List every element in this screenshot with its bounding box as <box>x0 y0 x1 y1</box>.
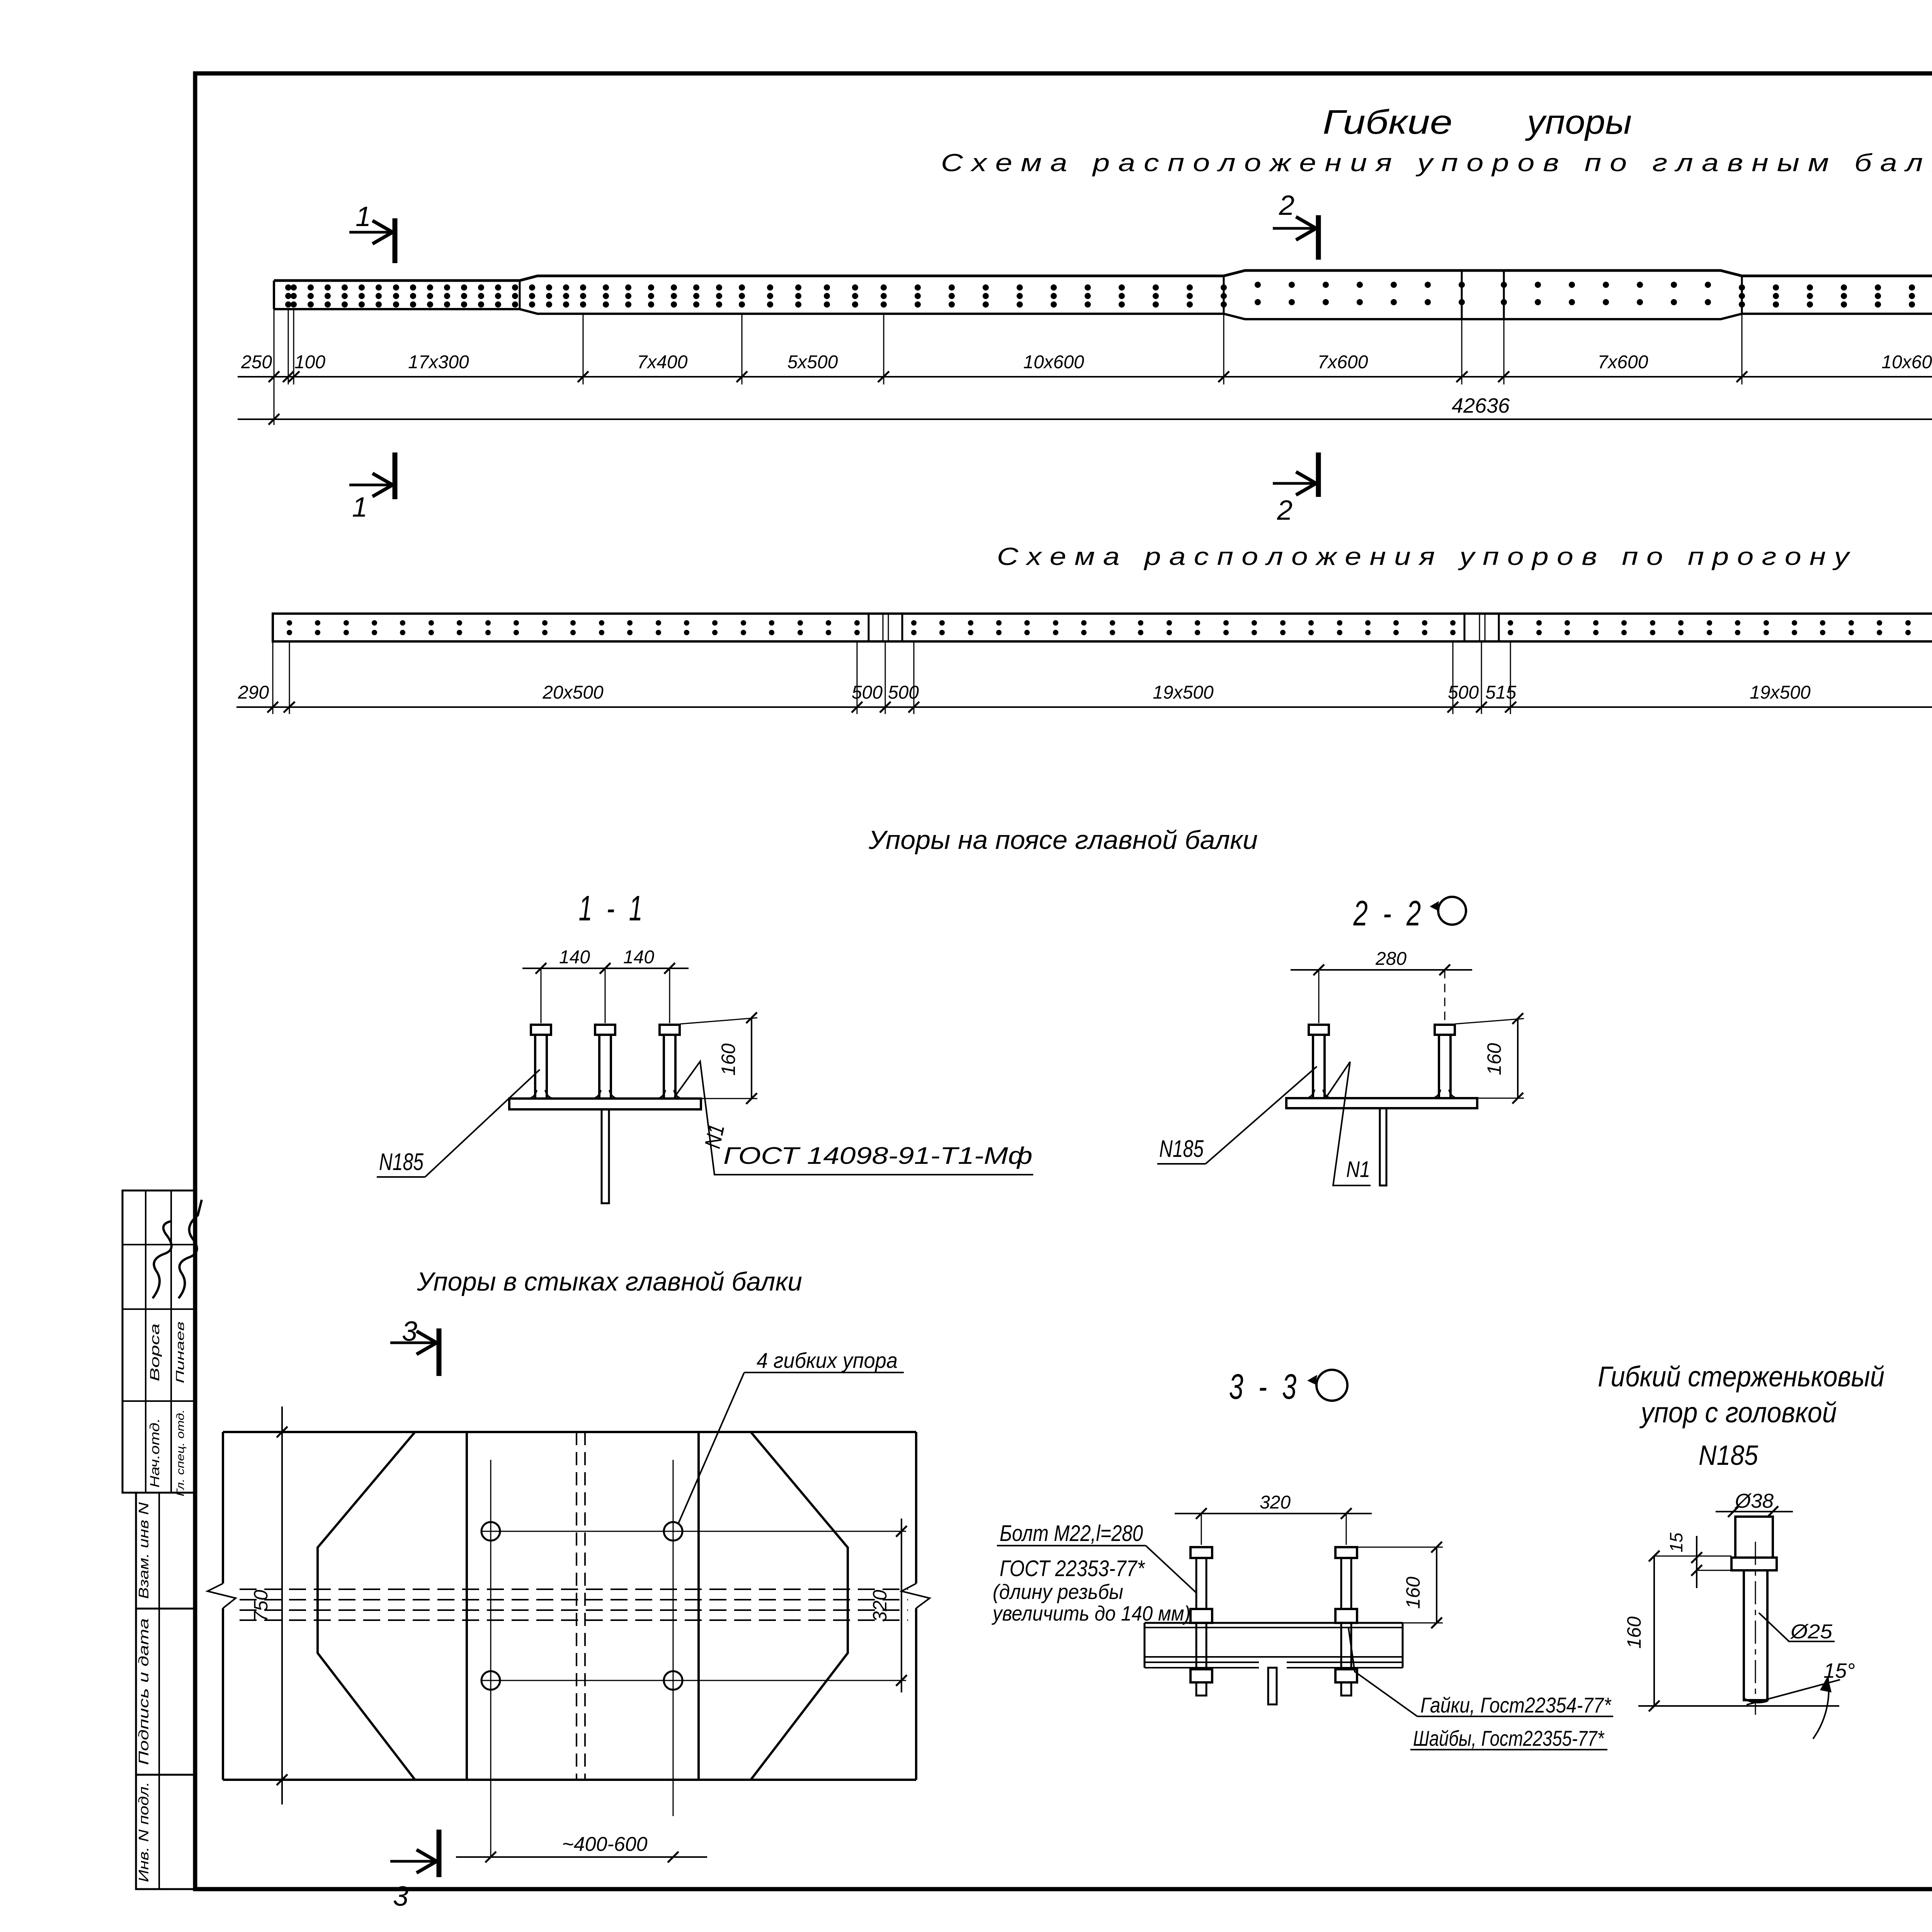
leader N185 (section 1-1) <box>377 1070 540 1177</box>
left stamp: Подпись и дата cell <box>136 1609 195 1775</box>
svg-text:19x500: 19x500 <box>1153 682 1214 703</box>
svg-text:С х е м а р а с п о л о ж е: С х е м а р а с п о л о ж е н и я у п о … <box>997 543 1851 570</box>
svg-text:(длину резьбы: (длину резьбы <box>993 1580 1123 1604</box>
dim 160 (section 3-3) <box>1357 1542 1443 1628</box>
svg-text:ГОСТ 14098-91-Т1-Мф: ГОСТ 14098-91-Т1-Мф <box>723 1143 1032 1169</box>
svg-text:2: 2 <box>1277 495 1293 526</box>
dim 160 (section 2-2) <box>1455 1013 1524 1104</box>
plan: bolt circles (4 flexible stops) <box>481 1460 906 1857</box>
dim 750 (plan) <box>250 1406 287 1804</box>
svg-text:500: 500 <box>852 682 883 703</box>
svg-text:Взам. инв N: Взам. инв N <box>136 1502 151 1599</box>
web (section 2-2) <box>1380 1108 1386 1185</box>
section marker 1 (top) <box>349 201 395 263</box>
dim 320 (plan) <box>869 1519 907 1692</box>
svg-text:Ø38: Ø38 <box>1734 1490 1774 1512</box>
left stamp: Взам. инв N cell <box>136 1493 195 1609</box>
svg-text:3 - 3: 3 - 3 <box>1229 1367 1301 1406</box>
beam: main girder profile (scheme 1) <box>274 270 1932 319</box>
plan: hidden flange edges (dashed) <box>240 1589 908 1620</box>
total dimension 42636 <box>238 309 1932 425</box>
left stamp: Инв. N подл. cell <box>136 1775 195 1889</box>
leader N1 / ГОСТ 14098-91-Т1-Мф (section 1-1) <box>674 1061 1033 1175</box>
svg-text:Упоры в стыках главной балки: Упоры в стыках главной балки <box>417 1267 802 1296</box>
beam 1 mid-span splice joint <box>1462 270 1504 319</box>
svg-text:~400-600: ~400-600 <box>562 1833 647 1855</box>
svg-text:500: 500 <box>888 682 919 703</box>
svg-text:515: 515 <box>1485 682 1516 703</box>
svg-text:320: 320 <box>1260 1492 1291 1513</box>
svg-text:Подпись и дата: Подпись и дата <box>136 1618 151 1765</box>
dim 15 (head collar) <box>1666 1532 1731 1588</box>
svg-text:5x500: 5x500 <box>787 352 838 372</box>
bolt dots on beam 1 <box>285 282 1932 308</box>
plan: splice plate joint lines <box>467 1432 699 1780</box>
flange plate (section 1-1) <box>509 1099 701 1109</box>
bolts M22 (section 3-3) <box>1190 1547 1357 1696</box>
section marker 1 (bottom) <box>349 452 395 523</box>
subtitle: Схема расположения упоров по главным балкам <box>941 149 1932 177</box>
leader: Болт М22 ГОСТ 22353-77 note <box>991 1521 1196 1625</box>
leader: Гайки / Шайбы note <box>1349 1628 1613 1750</box>
svg-text:320: 320 <box>869 1590 891 1622</box>
svg-text:7x600: 7x600 <box>1318 352 1368 372</box>
dimension labels beam 1 <box>241 352 1932 372</box>
flange plate (section 2-2) <box>1286 1098 1477 1108</box>
section marker 3 (top) <box>390 1316 439 1376</box>
15 degree angle dim <box>1638 1659 1855 1739</box>
svg-text:N185: N185 <box>1699 1440 1759 1471</box>
svg-text:140: 140 <box>559 947 590 968</box>
title: Гибкий стерженьковый упор с головкой N185 <box>1598 1361 1884 1471</box>
svg-text:7x400: 7x400 <box>637 352 688 372</box>
svg-text:Ø25: Ø25 <box>1790 1621 1833 1643</box>
svg-text:увеличить до 140 мм): увеличить до 140 мм) <box>991 1602 1190 1625</box>
section label 3-3 with view circle <box>1229 1367 1348 1406</box>
section marker 3 (bottom) <box>390 1830 439 1912</box>
svg-text:3: 3 <box>393 1881 408 1912</box>
dimension line beam 2 <box>236 641 1932 714</box>
leader: 4 гибких упора <box>678 1348 904 1524</box>
svg-text:10x600: 10x600 <box>1023 352 1084 372</box>
svg-text:750: 750 <box>250 1590 272 1622</box>
web stub (section 3-3) <box>1268 1668 1277 1704</box>
section label 1-1 <box>579 889 646 928</box>
svg-text:140: 140 <box>623 947 654 968</box>
svg-text:2 - 2: 2 - 2 <box>1353 894 1425 933</box>
beam: stringer profile (scheme 2) <box>273 614 1932 641</box>
stud head <box>1731 1517 1777 1570</box>
dimension line (beam 1 segments) <box>238 309 1932 384</box>
svg-text:250: 250 <box>241 352 272 372</box>
svg-text:1: 1 <box>352 492 367 523</box>
svg-text:Гибкие: Гибкие <box>1323 103 1452 141</box>
svg-text:Гайки, Гост22354-77*: Гайки, Гост22354-77* <box>1420 1693 1612 1717</box>
svg-text:Упоры на поясе главной балки: Упоры на поясе главной балки <box>868 825 1258 855</box>
svg-text:290: 290 <box>238 682 269 703</box>
svg-text:19x500: 19x500 <box>1750 682 1811 703</box>
plan: beam joint (dashed centre) <box>577 1432 585 1780</box>
svg-text:Шайбы, Гост22355-77*: Шайбы, Гост22355-77* <box>1413 1726 1605 1750</box>
svg-text:160: 160 <box>1402 1577 1424 1609</box>
bolt dots on beam 2 <box>287 620 1932 635</box>
svg-text:15°: 15° <box>1823 1659 1855 1682</box>
svg-text:160: 160 <box>1483 1043 1505 1075</box>
dim 140 140 (section 1-1) <box>522 947 689 1023</box>
svg-text:С х е м а р а с п о л о ж е: С х е м а р а с п о л о ж е н и я у п о … <box>941 149 1932 177</box>
svg-text:42636: 42636 <box>1452 394 1510 417</box>
svg-text:20x500: 20x500 <box>542 682 604 703</box>
svg-text:ГОСТ 22353-77*: ГОСТ 22353-77* <box>1000 1556 1145 1581</box>
title: Гибкие упоры <box>1323 103 1632 141</box>
leader N185 (section 2-2) <box>1157 1066 1317 1164</box>
splice plate package (section 3-3) <box>1145 1623 1403 1668</box>
section marker 2 (bottom) <box>1273 452 1318 526</box>
svg-text:500: 500 <box>1448 682 1479 703</box>
svg-text:1: 1 <box>355 201 371 232</box>
svg-text:Гибкий стерженьковый: Гибкий стерженьковый <box>1598 1361 1884 1393</box>
plan: flange taper outlines <box>318 1432 848 1780</box>
stringer splice joints <box>869 614 1932 641</box>
stud shaft <box>1744 1542 1767 1715</box>
svg-text:160: 160 <box>1623 1616 1645 1649</box>
svg-text:3: 3 <box>402 1316 417 1347</box>
svg-text:Нач.отд.: Нач.отд. <box>148 1418 162 1488</box>
svg-text:15: 15 <box>1666 1532 1686 1553</box>
svg-text:100: 100 <box>294 352 325 372</box>
svg-text:4 гибких упора: 4 гибких упора <box>757 1348 898 1372</box>
subtitle: Схема расположения упоров по прогону <box>997 543 1851 570</box>
dim 320 (section 3-3) <box>1175 1492 1372 1545</box>
web (section 1-1) <box>602 1109 609 1203</box>
svg-text:280: 280 <box>1375 949 1406 969</box>
svg-text:упор с головкой: упор с головкой <box>1639 1396 1837 1429</box>
svg-text:17x300: 17x300 <box>408 352 469 372</box>
leader Ø25 (stud shaft) <box>1759 1613 1835 1643</box>
title: Упоры в стыках главной балки <box>417 1267 802 1296</box>
title: Упоры на поясе главной балки <box>868 825 1258 855</box>
svg-text:160: 160 <box>718 1043 739 1076</box>
dimension labels beam 2 <box>238 682 1932 703</box>
svg-text:упоры: упоры <box>1525 103 1632 141</box>
svg-text:7x600: 7x600 <box>1598 352 1648 372</box>
dim 280 (section 2-2) <box>1291 949 1472 1025</box>
svg-text:1 - 1: 1 - 1 <box>579 889 646 928</box>
studs N185 (section 2-2) <box>1307 1025 1457 1098</box>
svg-text:Ворса: Ворса <box>148 1323 162 1381</box>
svg-text:Болт М22,l=280: Болт М22,l=280 <box>1000 1521 1143 1546</box>
svg-text:10x600: 10x600 <box>1881 352 1932 372</box>
svg-text:N185: N185 <box>1159 1136 1204 1162</box>
svg-text:Пинаев: Пинаев <box>174 1321 187 1383</box>
left stamp: upper approval mini-table <box>122 1190 202 1497</box>
dim 160 (section 1-1) <box>680 1012 757 1104</box>
dim Ø38 (stud head) <box>1716 1490 1793 1517</box>
section label 2-2 with view circle <box>1353 894 1466 933</box>
section marker 2 (top) <box>1273 190 1318 260</box>
dim 160 (stud) <box>1623 1551 1731 1711</box>
plan outline of splice plates <box>207 1432 930 1780</box>
svg-text:N1: N1 <box>1346 1157 1370 1182</box>
svg-text:Инв. N подл.: Инв. N подл. <box>136 1782 151 1882</box>
svg-text:Гл. спец. отд.: Гл. спец. отд. <box>174 1410 186 1497</box>
dim ~400-600 (plan) <box>456 1833 707 1862</box>
svg-text:2: 2 <box>1279 190 1294 221</box>
leader N1 (section 2-2) <box>1326 1062 1371 1185</box>
svg-text:N185: N185 <box>379 1149 423 1175</box>
studs N185 (section 1-1) <box>529 1025 682 1099</box>
